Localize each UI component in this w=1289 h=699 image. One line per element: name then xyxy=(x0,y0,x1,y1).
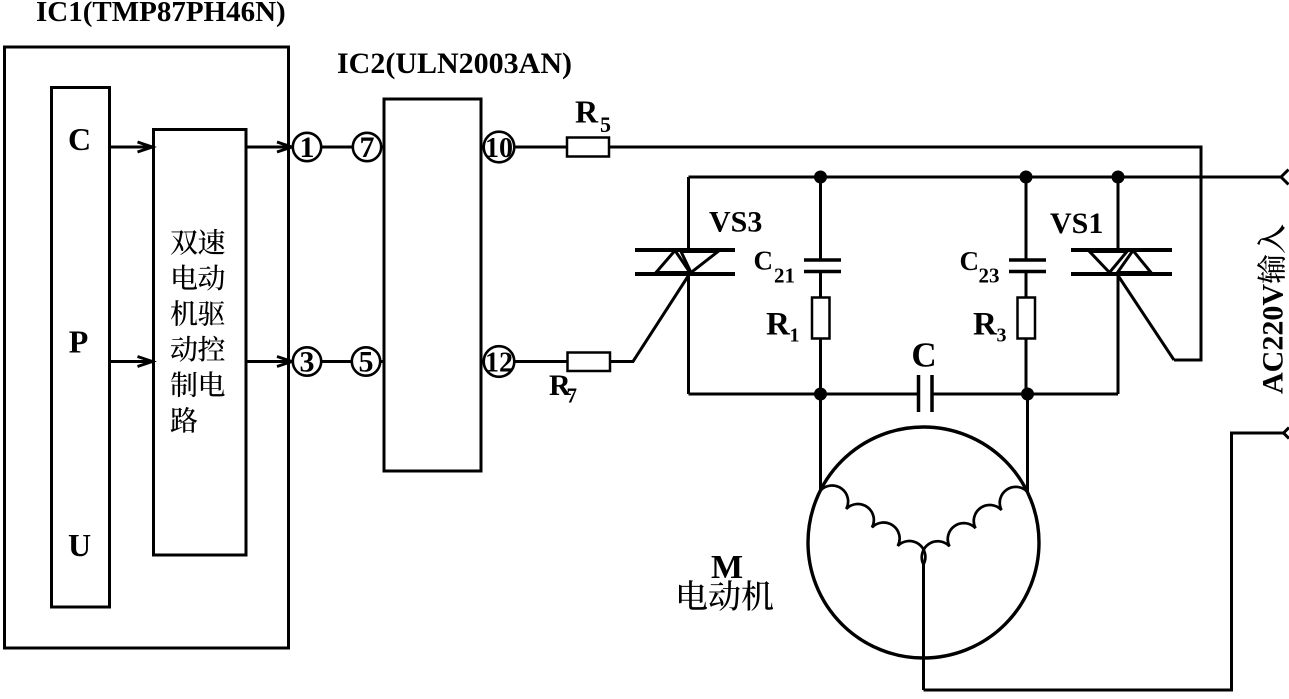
svg-text:C: C xyxy=(960,246,980,276)
capacitor C xyxy=(919,375,933,412)
wire pin5 to IC2 xyxy=(380,360,384,363)
resistor R1 xyxy=(812,298,830,339)
wire R1 to bottom rail xyxy=(819,339,822,395)
wire C23 top xyxy=(1025,177,1028,259)
wire R3 to bottom rail xyxy=(1025,339,1028,395)
IC2 ULN2003AN box xyxy=(384,99,481,471)
svg-text:1: 1 xyxy=(300,131,315,164)
wire R5 to VS1 gate xyxy=(609,147,1201,360)
node top rail / C21 xyxy=(814,171,827,184)
wire VS3 anode to top rail xyxy=(687,177,690,248)
label 双速 xyxy=(171,229,225,255)
wire pin1 to pin7 xyxy=(321,146,353,149)
svg-text:1: 1 xyxy=(790,325,800,347)
motor M circle xyxy=(808,427,1039,658)
resistor R5 xyxy=(567,138,609,157)
label 制电 xyxy=(171,371,225,397)
wire VS1 gate xyxy=(1118,276,1174,361)
node top rail / VS1 xyxy=(1112,171,1125,184)
svg-text:VS1: VS1 xyxy=(1050,207,1103,240)
wire C23 to R3 xyxy=(1025,273,1028,298)
pin 3 xyxy=(293,347,321,375)
svg-text:23: 23 xyxy=(979,264,1000,288)
text label 电动机 motor xyxy=(679,580,773,611)
svg-text:21: 21 xyxy=(774,264,795,288)
label AC220V input xyxy=(1257,225,1289,394)
svg-text:5: 5 xyxy=(359,346,374,379)
node bottom rail / R1 / motor left xyxy=(814,388,827,401)
wire top AC rail xyxy=(689,176,1282,179)
svg-text:3: 3 xyxy=(300,346,315,379)
IC1 microcontroller block outer box xyxy=(5,47,289,648)
pin 12 xyxy=(484,346,515,377)
wire R7 to VS3 gate xyxy=(610,276,689,362)
svg-text:10: 10 xyxy=(485,133,513,164)
wire arrow P to driver xyxy=(110,360,153,363)
wire arrow driver to pin 1 xyxy=(246,146,292,149)
motor winding right xyxy=(922,487,1028,565)
pin 7 xyxy=(353,133,381,161)
svg-text:U: U xyxy=(68,527,91,563)
C/P/U port box xyxy=(52,88,110,608)
wire pin12 to R7 xyxy=(515,360,568,363)
triac VS1 xyxy=(1071,250,1172,274)
wire bottom return to AC input xyxy=(924,433,1284,690)
svg-text:R: R xyxy=(575,94,599,130)
capacitor C21 xyxy=(804,260,841,272)
pin 10 xyxy=(484,132,515,163)
label 电动 xyxy=(173,264,224,290)
wire motor left phase xyxy=(819,394,822,491)
triac VS3 xyxy=(635,250,735,274)
resistor R7 xyxy=(568,353,611,372)
svg-text:C: C xyxy=(68,121,91,157)
wire VS1 cathode to bottom rail xyxy=(1117,276,1120,394)
motor winding left xyxy=(821,486,926,565)
pin 5 xyxy=(352,347,380,375)
wire arrow C to driver xyxy=(110,146,153,149)
node bottom rail / R3 / motor right xyxy=(1021,388,1034,401)
svg-text:7: 7 xyxy=(567,384,578,408)
wire C21 to R1 xyxy=(819,273,822,298)
wire arrow driver to pin 3 xyxy=(246,360,292,363)
svg-text:7: 7 xyxy=(360,131,375,164)
svg-text:3: 3 xyxy=(997,325,1007,347)
connector bottom AC input xyxy=(1284,428,1289,439)
pin 1 xyxy=(293,133,321,161)
label 路 xyxy=(171,407,198,433)
svg-text:12: 12 xyxy=(485,348,513,379)
wire motor right phase xyxy=(1026,394,1029,492)
wire pin10 to R5 xyxy=(515,146,568,149)
driver logic box xyxy=(154,130,247,556)
svg-text:AC220V: AC220V xyxy=(1257,284,1289,394)
wire pin7 to IC2 xyxy=(381,146,384,149)
svg-text:M: M xyxy=(711,549,743,586)
connector top AC input xyxy=(1281,170,1289,185)
svg-text:R: R xyxy=(973,307,998,343)
svg-text:P: P xyxy=(69,324,89,360)
svg-text:IC2(ULN2003AN): IC2(ULN2003AN) xyxy=(337,47,572,80)
svg-text:IC1(TMP87PH46N): IC1(TMP87PH46N) xyxy=(36,0,286,28)
svg-text:C: C xyxy=(754,246,774,276)
wire bottom rail right segment xyxy=(932,393,1118,396)
wire VS3 cathode to bottom rail xyxy=(687,276,690,394)
label 动控 xyxy=(171,336,225,362)
wire motor centre tap xyxy=(922,565,925,691)
svg-text:C: C xyxy=(911,336,936,375)
svg-text:VS3: VS3 xyxy=(709,206,762,239)
svg-text:R: R xyxy=(766,307,791,343)
wire bottom rail left segment xyxy=(689,393,919,396)
wire pin3 to pin5 xyxy=(321,360,352,363)
label 机驱 xyxy=(171,300,225,326)
node top rail / C23 xyxy=(1020,171,1033,184)
capacitor C23 xyxy=(1009,260,1046,272)
wire VS1 anode to top rail xyxy=(1117,177,1120,248)
resistor R3 xyxy=(1018,298,1036,339)
wire C21 top xyxy=(819,177,822,259)
svg-text:5: 5 xyxy=(600,112,611,137)
